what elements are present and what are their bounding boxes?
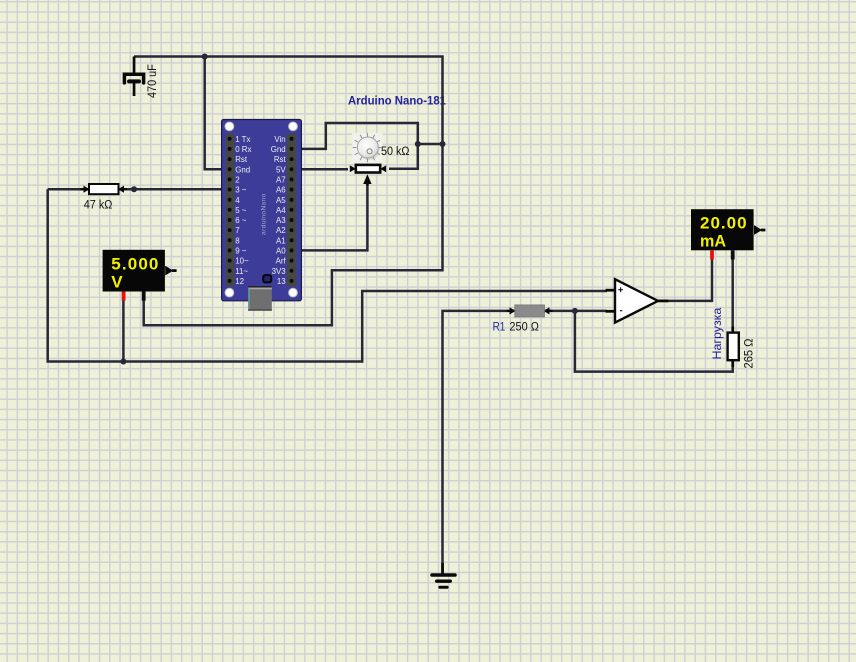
svg-text:5V: 5V (276, 165, 286, 174)
svg-text:mA: mA (700, 232, 726, 251)
pin pads (228, 137, 294, 283)
svg-text:Gnd: Gnd (235, 165, 250, 174)
potentiometer 50 kOhm (350, 133, 410, 186)
voltmeter arrow (165, 266, 173, 276)
svg-text:A3: A3 (276, 216, 286, 225)
wire ammeter black terminal to load top (731, 259, 734, 333)
svg-text:4: 4 (235, 196, 240, 205)
svg-text:Нагрузка: Нагрузка (710, 308, 724, 360)
svg-text:A4: A4 (276, 206, 286, 215)
junction voltmeter red / bottom rail node (120, 359, 126, 365)
op-amp plus input mark (618, 289, 623, 291)
junction R1 / feedback node (572, 308, 578, 314)
USB connector (248, 286, 272, 311)
svg-text:8: 8 (235, 236, 240, 245)
ammeter arrow (754, 225, 762, 235)
resistor 47 kOhm (81, 184, 128, 211)
svg-text:2: 2 (235, 176, 239, 185)
svg-text:3V3: 3V3 (272, 267, 287, 276)
svg-text:47 kΩ: 47 kΩ (84, 197, 113, 211)
junction cap bottom / 47k row node (131, 186, 137, 192)
svg-text:50 kΩ: 50 kΩ (381, 144, 410, 158)
svg-text:20.00: 20.00 (700, 214, 747, 233)
svg-text:250 Ω: 250 Ω (509, 319, 539, 333)
resistor R1 250 Ohm (493, 305, 553, 334)
svg-text:1 Tx: 1 Tx (235, 135, 250, 144)
wire ground symbol to R1 to op-amp minus input (443, 311, 608, 572)
ammeter 20.00 mA (691, 209, 765, 259)
op-amp U1 (606, 279, 669, 322)
svg-text:V: V (111, 272, 123, 291)
svg-text:Vin: Vin (274, 135, 285, 144)
svg-text:6 ~: 6 ~ (235, 216, 247, 225)
voltmeter red terminal (122, 292, 126, 301)
ground (432, 563, 455, 587)
svg-text:5 ~: 5 ~ (235, 206, 247, 215)
svg-text:A7: A7 (276, 176, 286, 185)
svg-text:Rst: Rst (274, 155, 287, 164)
svg-text:265 Ω: 265 Ω (742, 339, 756, 369)
junction pot branch node right (440, 141, 446, 147)
voltmeter black terminal (142, 292, 146, 301)
junction top rail node (202, 54, 208, 60)
wire feedback from load bottom to R1 right node (575, 311, 733, 372)
wire net A: cap top rail to voltmeter black terminal (134, 57, 443, 326)
svg-text:arduinoNano: arduinoNano (261, 193, 268, 235)
svg-text:9 ~: 9 ~ (235, 247, 247, 256)
wire Arduino right Gnd pin to pot right end (291, 123, 418, 169)
svg-text:A1: A1 (276, 236, 286, 245)
pin labels left: 1 Tx, 0 Rx, Rst, Gnd, 2, 3, 4, 5, 6, 7, 8, 9, 10, 11, 12 (235, 135, 251, 286)
voltmeter 5.000 V (103, 250, 177, 301)
pin strip left (226, 134, 234, 287)
ammeter red terminal (710, 250, 714, 259)
svg-text:Rst: Rst (235, 155, 248, 164)
svg-text:11~: 11~ (235, 267, 248, 276)
resistor load Nagruzka 265 Ohm (710, 308, 756, 369)
svg-text:R1: R1 (493, 319, 506, 333)
wire from top rail to Arduino left Gnd pin (205, 57, 230, 170)
svg-text:5.000: 5.000 (111, 254, 158, 273)
svg-text:10~: 10~ (235, 257, 249, 266)
LED pin 13 square (263, 275, 271, 282)
svg-text:3 ~: 3 ~ (235, 186, 247, 195)
svg-text:13: 13 (277, 277, 286, 286)
wire voltmeter red lead (122, 299, 125, 362)
wire left rail to op-amp plus input (48, 189, 607, 361)
svg-text:12: 12 (235, 277, 244, 286)
junction pot branch node left (415, 141, 421, 147)
wire op-amp output to ammeter red terminal (666, 259, 712, 301)
wire 47k resistor row to Arduino pin 3 (48, 188, 230, 191)
svg-text:0 Rx: 0 Rx (235, 145, 251, 154)
pin strip right (287, 134, 296, 287)
svg-text:470 uF: 470 uF (145, 64, 159, 98)
svg-text:A6: A6 (276, 186, 286, 195)
pin labels right: Vin, Gnd, Rst, 5V, A7, A6, A5, A4, A3, A2, A1, A0, Arf, 3V3, 13 (271, 135, 287, 286)
ammeter black terminal (731, 250, 735, 259)
svg-text:A0: A0 (276, 247, 286, 256)
svg-text:7: 7 (235, 226, 239, 235)
pot track body (356, 165, 380, 173)
svg-text:Gnd: Gnd (271, 145, 286, 154)
capacitor C1 470 uF (124, 57, 159, 99)
wire 5V pin to pot left end (291, 168, 348, 171)
wire A0 pin to pot wiper (291, 182, 367, 250)
mounting holes (225, 122, 234, 131)
Arduino Nano board U2 (222, 120, 302, 311)
pot wiper arrow (363, 174, 371, 184)
svg-text:Arduino Nano-181: Arduino Nano-181 (348, 94, 446, 108)
svg-text:Arf: Arf (276, 257, 287, 266)
op-amp minus input mark (620, 310, 622, 312)
wire branch from pot net to vertical rail (418, 143, 443, 146)
svg-text:A2: A2 (276, 226, 286, 235)
svg-text:A5: A5 (276, 196, 286, 205)
